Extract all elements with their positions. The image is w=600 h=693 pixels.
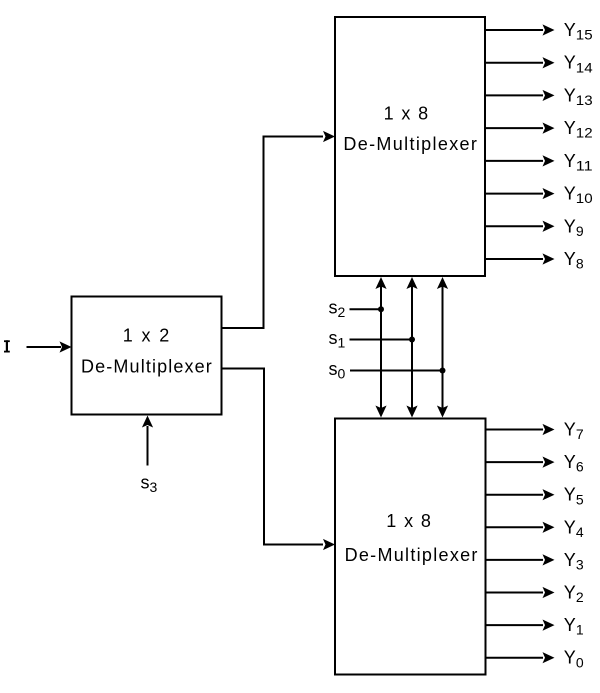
wire U1 output 0 to U2 input (up and over) bbox=[222, 131, 336, 328]
label output Y0 bbox=[564, 648, 584, 671]
label U2 value "1 x 8" bbox=[384, 104, 429, 124]
svg-text:Y3: Y3 bbox=[564, 550, 584, 573]
svg-text:Y9: Y9 bbox=[564, 216, 584, 239]
wire output Y10 bbox=[485, 188, 555, 199]
label output Y14 bbox=[564, 53, 593, 76]
wire U1 output 1 to U3 input (down and over) bbox=[222, 369, 336, 551]
select s1 label bbox=[329, 328, 346, 351]
svg-text:Y10: Y10 bbox=[564, 184, 593, 207]
label output Y5 bbox=[564, 485, 584, 508]
wire output Y15 bbox=[485, 24, 555, 35]
wire s3 into U1 bottom (up arrow) bbox=[142, 416, 153, 466]
svg-text:De-Multiplexer: De-Multiplexer bbox=[345, 545, 478, 565]
junction s0 on bus line 3 bbox=[440, 368, 446, 374]
select s0 label bbox=[329, 359, 346, 382]
wire output Y4 bbox=[486, 522, 555, 533]
wire output Y13 bbox=[485, 90, 555, 101]
label output Y4 bbox=[564, 517, 584, 540]
svg-text:De-Multiplexer: De-Multiplexer bbox=[81, 357, 212, 377]
wire output Y9 bbox=[485, 221, 555, 232]
junction s2 on bus line 1 bbox=[378, 306, 384, 312]
label U3 value "1 x 8" bbox=[386, 511, 431, 531]
label output Y15 bbox=[564, 20, 593, 43]
select s2 label bbox=[329, 298, 346, 321]
svg-text:Y8: Y8 bbox=[564, 249, 584, 272]
wire s0 stub bbox=[350, 370, 443, 372]
label output Y11 bbox=[564, 151, 593, 174]
svg-text:s1: s1 bbox=[329, 328, 346, 351]
label output Y3 bbox=[564, 550, 584, 573]
svg-text:1 x 8: 1 x 8 bbox=[386, 511, 431, 531]
svg-text:Y13: Y13 bbox=[564, 85, 593, 108]
wire output Y8 bbox=[485, 253, 555, 264]
svg-text:Y11: Y11 bbox=[564, 151, 593, 174]
svg-text:Y0: Y0 bbox=[564, 648, 584, 671]
demux U1 (1 x 2 De-Multiplexer) box bbox=[72, 297, 222, 415]
wire output Y6 bbox=[486, 457, 555, 468]
label output Y7 bbox=[564, 420, 584, 443]
label output Y12 bbox=[564, 118, 593, 141]
junction s1 on bus line 2 bbox=[409, 337, 415, 343]
svg-text:De-Multiplexer: De-Multiplexer bbox=[343, 134, 477, 154]
svg-text:Y4: Y4 bbox=[564, 517, 584, 540]
svg-text:Y12: Y12 bbox=[564, 118, 593, 141]
label output Y10 bbox=[564, 184, 593, 207]
label U3 name "De-Multiplexer" bbox=[345, 545, 478, 565]
svg-text:Y15: Y15 bbox=[564, 20, 593, 43]
svg-text:Y1: Y1 bbox=[564, 615, 584, 638]
label output Y6 bbox=[564, 452, 584, 475]
wire input I into U1 pin bbox=[27, 341, 72, 352]
wire output Y7 bbox=[486, 424, 555, 435]
svg-text:s3: s3 bbox=[141, 473, 158, 496]
label U1 name "De-Multiplexer" bbox=[81, 357, 212, 377]
svg-text:Y14: Y14 bbox=[564, 53, 593, 76]
select s3 label bbox=[141, 473, 158, 496]
svg-text:s2: s2 bbox=[329, 298, 346, 321]
wire output Y2 bbox=[486, 587, 555, 598]
select bus line 3 between U2 and U3 (arrows both ends) bbox=[437, 277, 448, 418]
select bus line 1 between U2 and U3 (arrows both ends) bbox=[375, 277, 386, 418]
svg-text:1 x 2: 1 x 2 bbox=[123, 326, 170, 346]
wire output Y3 bbox=[486, 554, 555, 565]
wire output Y0 bbox=[486, 652, 555, 663]
label U1 value "1 x 2" bbox=[123, 326, 170, 346]
label output Y13 bbox=[564, 85, 593, 108]
demux U3 (bottom 1 x 8 De-Multiplexer) box bbox=[335, 419, 486, 675]
label output Y1 bbox=[564, 615, 584, 638]
label output Y9 bbox=[564, 216, 584, 239]
select bus line 2 between U2 and U3 (arrows both ends) bbox=[406, 277, 417, 418]
wire output Y1 bbox=[486, 620, 555, 631]
wire s2 stub bbox=[350, 308, 382, 310]
wire output Y12 bbox=[485, 123, 555, 134]
svg-text:1 x 8: 1 x 8 bbox=[384, 104, 429, 124]
wire output Y11 bbox=[485, 155, 555, 166]
svg-text:Y7: Y7 bbox=[564, 420, 584, 443]
svg-text:s0: s0 bbox=[329, 359, 346, 382]
label output Y8 bbox=[564, 249, 584, 272]
svg-text:Y2: Y2 bbox=[564, 583, 584, 606]
wire output Y5 bbox=[486, 489, 555, 500]
svg-text:Y5: Y5 bbox=[564, 485, 584, 508]
svg-text:Y6: Y6 bbox=[564, 452, 584, 475]
wire s1 stub bbox=[350, 339, 413, 341]
wire output Y14 bbox=[485, 57, 555, 68]
label U2 name "De-Multiplexer" bbox=[343, 134, 477, 154]
node I (data input label) bbox=[4, 340, 10, 352]
demux U2 (top 1 x 8 De-Multiplexer) box bbox=[335, 17, 485, 276]
label output Y2 bbox=[564, 583, 584, 606]
